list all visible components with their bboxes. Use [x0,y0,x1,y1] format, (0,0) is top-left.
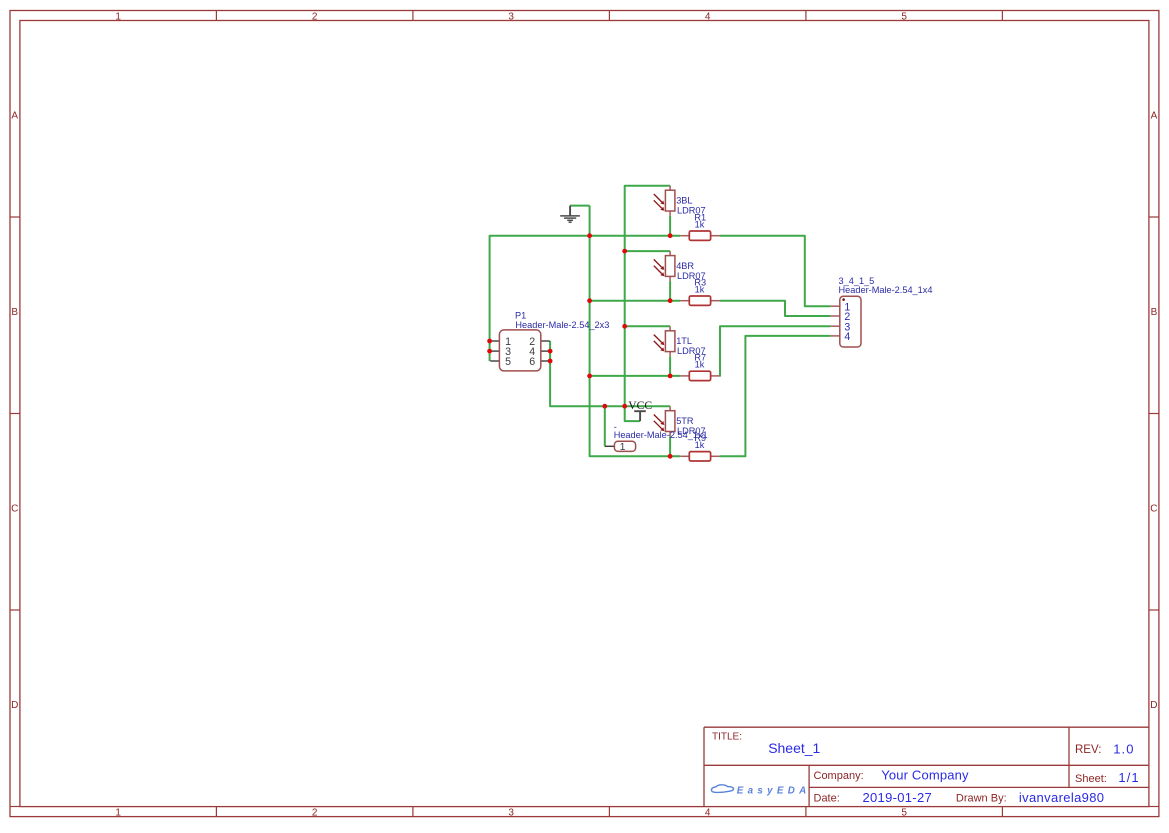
svg-text:Date:: Date: [814,793,840,805]
svg-text:Company:: Company: [814,770,864,782]
svg-text:EasyEDA: EasyEDA [737,785,811,796]
svg-text:1/1: 1/1 [1118,770,1139,785]
svg-text:1: 1 [620,441,626,453]
svg-text:5: 5 [901,11,907,22]
svg-text:A: A [1151,110,1158,121]
svg-text:Header-Male-2.54_1x1: Header-Male-2.54_1x1 [614,430,708,440]
svg-text:2019-01-27: 2019-01-27 [863,790,933,805]
svg-text:1k: 1k [695,360,705,370]
svg-text:6: 6 [529,356,535,368]
svg-text:D: D [11,700,18,711]
svg-text:5TR: 5TR [676,416,694,426]
svg-text:1k: 1k [695,440,705,450]
svg-text:1: 1 [115,808,121,819]
svg-text:5: 5 [901,808,907,819]
svg-text:2: 2 [312,808,318,819]
svg-text:A: A [11,110,18,121]
svg-text:Sheet:: Sheet: [1075,773,1107,785]
svg-text:TITLE:: TITLE: [712,731,742,742]
svg-text:5: 5 [505,356,511,368]
svg-text:C: C [11,503,18,514]
svg-text:D: D [1150,700,1157,711]
svg-text:Header-Male-2.54_2x3: Header-Male-2.54_2x3 [515,320,609,330]
svg-text:1k: 1k [695,220,705,230]
svg-text:B: B [1151,307,1158,318]
svg-text:Drawn By:: Drawn By: [956,793,1007,805]
svg-text:1: 1 [115,11,121,22]
svg-text:B: B [11,307,18,318]
svg-text:Sheet_1: Sheet_1 [768,740,820,756]
svg-text:3: 3 [508,11,514,22]
svg-text:VCC: VCC [628,399,652,412]
svg-text:2: 2 [312,11,318,22]
svg-text:Header-Male-2.54_1x4: Header-Male-2.54_1x4 [839,285,933,295]
svg-text:C: C [1150,503,1157,514]
svg-text:3: 3 [508,808,514,819]
svg-text:3BL: 3BL [676,196,692,206]
svg-text:Your Company: Your Company [881,768,969,783]
svg-text:4: 4 [844,331,850,343]
svg-text:1.0: 1.0 [1113,741,1134,756]
svg-text:4: 4 [705,808,711,819]
svg-text:1k: 1k [695,285,705,295]
svg-text:1TL: 1TL [676,336,692,346]
svg-text:REV:: REV: [1075,744,1101,756]
svg-text:4: 4 [705,11,711,22]
svg-text:4BR: 4BR [676,261,694,271]
svg-text:ivanvarela980: ivanvarela980 [1019,790,1105,805]
